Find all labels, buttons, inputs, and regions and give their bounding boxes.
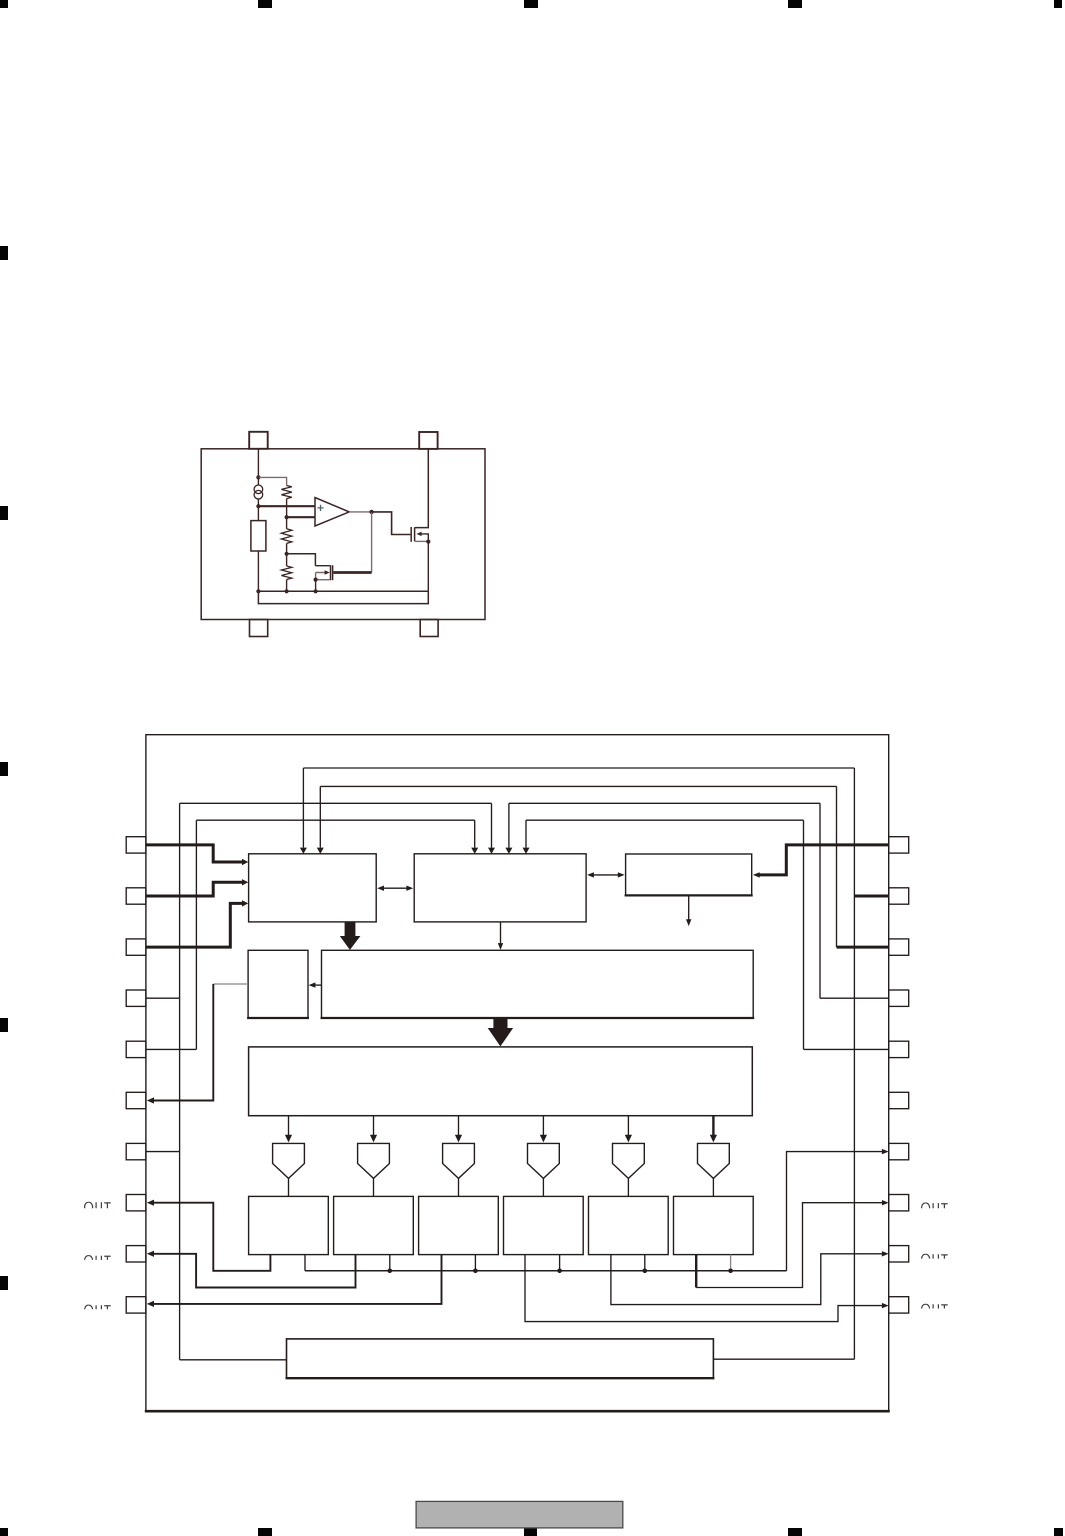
left pin 4 bbox=[126, 990, 146, 1006]
funnel 1 stem bbox=[288, 1178, 290, 1196]
wire left pin 5 tap to bus D vertical bbox=[146, 1048, 197, 1050]
rail junction dot 3 bbox=[557, 1269, 562, 1274]
bus wire B horizontal bbox=[320, 785, 836, 787]
registration mark left 2 bbox=[0, 506, 8, 520]
arrow U6 into U5 bbox=[312, 984, 322, 986]
label OUT (left pin 9), clipped glyph tops bbox=[85, 1256, 111, 1265]
block U6 bottom edge thick bbox=[321, 1017, 755, 1019]
registration mark left 4 bbox=[0, 1018, 8, 1032]
block U5 (small, mid-left) bbox=[248, 950, 308, 1018]
rail junction dot 1 bbox=[388, 1269, 393, 1274]
wire node E to Q2 gate bbox=[372, 512, 411, 535]
wire node A to resistor R1 top bbox=[258, 477, 286, 485]
resistor R4 (box style) bbox=[251, 521, 266, 551]
block U4 (top-right) bbox=[626, 854, 752, 895]
wire node E down to Q1 gate bbox=[371, 512, 373, 573]
wire vertical down to left pin 6 bbox=[152, 984, 213, 1101]
wire left pin 7 tap to bus C vertical bbox=[146, 1151, 180, 1153]
registration mark bottom 4 bbox=[788, 1528, 802, 1536]
left pin 10 bbox=[126, 1297, 146, 1313]
wire output block 4 to right pin 10 bbox=[525, 1255, 882, 1322]
registration mark bottom 3 bbox=[524, 1528, 537, 1536]
fat arrow U6 down to U7 bbox=[493, 1018, 507, 1028]
bus wire C arrow into U3 bbox=[491, 803, 493, 847]
double-headed arrow U2 to U3 bbox=[381, 887, 410, 889]
ground rail dot 2 bbox=[285, 589, 289, 593]
wire node C to op-amp - input bbox=[287, 516, 315, 518]
bus wire C right leg down to right pin 4 bbox=[819, 803, 821, 998]
wire node B to op-amp + input bbox=[258, 505, 315, 507]
label OUT (right pin 8), clipped glyph tops bbox=[922, 1203, 948, 1212]
left pin 2 bbox=[126, 888, 146, 904]
bus wire D left segment bbox=[196, 819, 474, 821]
IC internal schematic outer box bbox=[201, 449, 485, 620]
label OUT (right pin 10), clipped glyph tops bbox=[922, 1304, 948, 1313]
registration mark top 4 bbox=[788, 0, 802, 8]
chip outline bottom edge (thick) bbox=[145, 1410, 890, 1413]
driver funnel 3 bbox=[443, 1143, 475, 1178]
arrow U7 down to driver funnel 5 bbox=[627, 1116, 629, 1136]
wire right pin 2 tap to bus A vertical (thick) bbox=[854, 895, 888, 898]
wire op-amp output to node E bbox=[349, 511, 371, 513]
output block 2 right stub bbox=[389, 1255, 391, 1271]
right pin 10 bbox=[889, 1297, 909, 1313]
wire left pin 1 into U2 input 1 (thick) bbox=[146, 845, 242, 862]
wire output block 3 to left pin 10 bbox=[152, 1255, 442, 1304]
fat arrow U2 down to U6 bbox=[345, 922, 356, 936]
bus wire D right arrow into U3 bbox=[525, 820, 527, 847]
wire right pin 1 to U4 (thick) bbox=[760, 843, 889, 875]
output block 4 right stub bbox=[559, 1255, 561, 1271]
wire node B down to resistor R4 bbox=[257, 506, 259, 520]
wire R1 bottom to node C bbox=[286, 499, 288, 518]
right pin 4 bbox=[889, 990, 909, 1006]
registration mark bottom-right corner bbox=[1054, 1528, 1063, 1536]
transistor Q1 channel bar bbox=[332, 565, 334, 580]
wire output block 2 to left pin 9 bbox=[152, 1254, 356, 1288]
wire node D to resistor R3 bbox=[286, 554, 288, 566]
wire output block 1 to left pin 8 bbox=[152, 1203, 270, 1271]
wire R3 bottom to ground rail bbox=[286, 580, 288, 592]
block U2 (top-left) bbox=[249, 854, 377, 922]
left pin 8 bbox=[126, 1195, 146, 1211]
output block 3 right stub bbox=[474, 1255, 476, 1271]
output block 1 bbox=[249, 1196, 329, 1254]
left pin 9 bbox=[126, 1246, 146, 1262]
left pin 5 bbox=[126, 1041, 146, 1057]
wire Q2 source down to ground rail bbox=[427, 542, 429, 592]
common rail under output blocks bbox=[305, 1270, 787, 1272]
node E junction dot bbox=[369, 510, 373, 514]
output block 6 right stub bbox=[730, 1255, 732, 1271]
output block 1 right stub bbox=[304, 1255, 306, 1271]
bus wire A left leg arrow into U2 bbox=[302, 768, 304, 848]
block U4 bottom edge thick bbox=[625, 894, 753, 896]
registration mark top-right corner bbox=[1054, 0, 1062, 8]
resistor R1 zigzag bbox=[281, 486, 291, 499]
arrow U7 down to driver funnel 2 bbox=[373, 1116, 375, 1136]
bus wire D right segment bbox=[526, 819, 804, 821]
right pin 8 bbox=[889, 1195, 909, 1211]
block U3 (top-middle) bbox=[414, 854, 586, 922]
Q1 source junction dot bbox=[314, 578, 318, 582]
wire current source leads bbox=[257, 477, 259, 506]
bus wire C right arrow into U3 bbox=[508, 803, 510, 847]
registration mark top-left corner bbox=[0, 0, 8, 8]
pin pad top-right of schematic bbox=[419, 432, 437, 449]
node C junction dot bbox=[285, 515, 289, 519]
rail junction dot 4 bbox=[643, 1269, 648, 1274]
double-headed arrow U3 to U4 bbox=[591, 874, 621, 876]
label OUT (left pin 10), clipped glyph tops bbox=[85, 1305, 111, 1314]
registration mark top 2 bbox=[258, 0, 272, 8]
output block 2 bbox=[334, 1196, 414, 1254]
funnel 4 stem bbox=[542, 1178, 544, 1196]
resistor R3 zigzag bbox=[281, 566, 291, 580]
ground rail dot 1 bbox=[256, 589, 260, 593]
bus wire A horizontal bbox=[303, 767, 854, 769]
transistor Q1 body arrow bbox=[316, 573, 325, 580]
ground rail wire bbox=[258, 590, 428, 592]
arrow down from U4 bottom bbox=[688, 895, 690, 919]
wire node D to Q1 drain bbox=[287, 554, 316, 566]
wire right pin 3 tap to bus B vertical (thick) bbox=[837, 946, 889, 949]
output block 6 bbox=[674, 1196, 754, 1254]
bus wire D arrow into U3 bbox=[474, 820, 476, 847]
funnel 2 stem bbox=[373, 1178, 375, 1196]
node D junction dot bbox=[285, 552, 289, 556]
right pin 6 bbox=[889, 1092, 909, 1108]
wire R2 bottom to node D bbox=[286, 543, 288, 553]
wire left pin 3 into U2 input 3 (thick) bbox=[146, 903, 242, 947]
op-amp U1 triangle bbox=[315, 498, 349, 527]
right pin 5 bbox=[889, 1041, 909, 1057]
label OUT (right pin 9), clipped glyph tops bbox=[922, 1254, 948, 1263]
transistor Q1 gate bar bbox=[330, 565, 332, 580]
left pin 7 bbox=[126, 1143, 146, 1159]
right pin 7 bbox=[889, 1143, 909, 1159]
transistor Q2 drain stub up to top pin bbox=[415, 449, 429, 528]
pin pad bottom-right of schematic bbox=[420, 620, 438, 637]
transistor Q2 gate bar bbox=[410, 527, 412, 542]
registration mark left 5 bbox=[0, 1276, 8, 1290]
wire left pin 2 into U2 input 2 (thick) bbox=[146, 882, 242, 896]
right pin 9 bbox=[889, 1246, 909, 1262]
current source I1 (two circles) bbox=[254, 485, 263, 494]
chip outline of block diagram bbox=[146, 735, 889, 1411]
transistor Q2 body arrow bbox=[421, 534, 428, 542]
arrow U3 down to U6 bbox=[500, 922, 502, 944]
block U7 (long latch row) bbox=[249, 1047, 753, 1116]
output block 4 bbox=[504, 1196, 584, 1254]
left pin 6 bbox=[126, 1092, 146, 1108]
block U8 (bottom long) bbox=[287, 1339, 714, 1378]
block U5 bottom edge thick bbox=[247, 1017, 309, 1019]
registration mark bottom 2 bbox=[258, 1528, 272, 1536]
arrow U7 down to driver funnel 6 bbox=[712, 1116, 714, 1136]
arrow U7 down to driver funnel 4 bbox=[542, 1116, 544, 1136]
registration mark bottom-left corner bbox=[0, 1528, 8, 1536]
registration mark left 1 bbox=[0, 246, 8, 260]
ground rail dot 3 bbox=[314, 589, 318, 593]
wire right pin 4 from bus C leg bbox=[820, 997, 889, 999]
rail junction dot 2 bbox=[473, 1269, 478, 1274]
wire left pin 4 tap to bus C vertical bbox=[146, 997, 180, 999]
driver funnel 2 bbox=[358, 1143, 390, 1178]
transistor Q1 source stub bbox=[316, 579, 330, 581]
driver funnel 1 bbox=[273, 1143, 305, 1178]
pin pad top-left of schematic bbox=[249, 432, 268, 449]
right pin 3 bbox=[889, 939, 909, 955]
transistor Q1 gate thick lead bbox=[333, 571, 371, 574]
funnel 6 stem bbox=[712, 1178, 714, 1196]
bus wire C left leg long vertical to bottom block bbox=[179, 803, 181, 1360]
wire R4 bottom to ground rail bbox=[257, 551, 259, 591]
right pin 2 bbox=[889, 888, 909, 904]
wire Q1 source to ground rail bbox=[315, 580, 317, 592]
bus wire D right leg down to right pin 5 bbox=[803, 820, 805, 1049]
rail riser to right pin 7 arrow bbox=[787, 1152, 883, 1271]
funnel 5 stem bbox=[627, 1178, 629, 1196]
rail junction dot 5 bbox=[728, 1269, 733, 1274]
wire output block 6 to right pin 8 bbox=[696, 1203, 882, 1288]
driver funnel 6 bbox=[698, 1143, 730, 1178]
transistor Q2 channel bar bbox=[414, 527, 416, 541]
output block 6 left stub thick bbox=[695, 1255, 697, 1288]
driver funnel 5 bbox=[613, 1143, 645, 1178]
wire U5 output (gray) to vertical bbox=[213, 983, 248, 985]
node A junction dot bbox=[256, 475, 260, 479]
bus wire D left leg down to left pin 5 bbox=[195, 820, 197, 1049]
bus wire A right leg down to bottom block bbox=[853, 768, 855, 1359]
pin pad bottom-left of schematic bbox=[250, 620, 268, 637]
wire output block 5 to right pin 9 bbox=[611, 1254, 882, 1305]
wire from top pin down to node A bbox=[257, 449, 259, 478]
bus wire B right leg down to right pin 3 bbox=[836, 786, 838, 947]
ground return wire lower loop bbox=[258, 591, 428, 603]
right pin 1 bbox=[889, 837, 909, 853]
block U6 (long, mid) bbox=[322, 950, 754, 1018]
bus wire B left leg arrow into U2 bbox=[319, 786, 321, 847]
resistor R2 zigzag bbox=[281, 529, 291, 544]
footer gray bar bbox=[416, 1501, 623, 1528]
transistor Q2 source stub bbox=[415, 540, 428, 542]
wire U8 right to bus A vertical bbox=[713, 1358, 854, 1360]
Q2 source junction dot bbox=[426, 540, 430, 544]
output block 5 right stub bbox=[644, 1255, 646, 1271]
funnel 3 stem bbox=[458, 1178, 460, 1196]
left pin 1 bbox=[126, 837, 146, 853]
op-amp U1 plus sign bbox=[317, 505, 323, 511]
registration mark left 3 bbox=[0, 762, 8, 776]
wire node C to resistor R2 bbox=[286, 517, 288, 529]
registration mark top 3 bbox=[524, 0, 538, 8]
block U8 bottom edge thick bbox=[286, 1377, 715, 1379]
label OUT (left pin 8), clipped glyph tops bbox=[85, 1202, 111, 1211]
arrow U7 down to driver funnel 3 bbox=[458, 1116, 460, 1136]
arrow into U4 right edge bbox=[756, 874, 761, 876]
transistor Q1 drain stub bbox=[315, 565, 329, 567]
output block 3 bbox=[419, 1196, 499, 1254]
bus wire C left segment bbox=[180, 802, 492, 804]
output block 5 bbox=[589, 1196, 669, 1254]
driver funnel 4 bbox=[528, 1143, 560, 1178]
wire bus C vertical into U8 left bbox=[180, 1359, 287, 1361]
node B junction dot bbox=[256, 504, 260, 508]
left pin 3 bbox=[126, 939, 146, 955]
bus wire C right segment bbox=[509, 802, 820, 804]
wire right pin 5 from bus D leg bbox=[804, 1048, 889, 1050]
arrow U7 down to driver funnel 1 bbox=[288, 1116, 290, 1136]
